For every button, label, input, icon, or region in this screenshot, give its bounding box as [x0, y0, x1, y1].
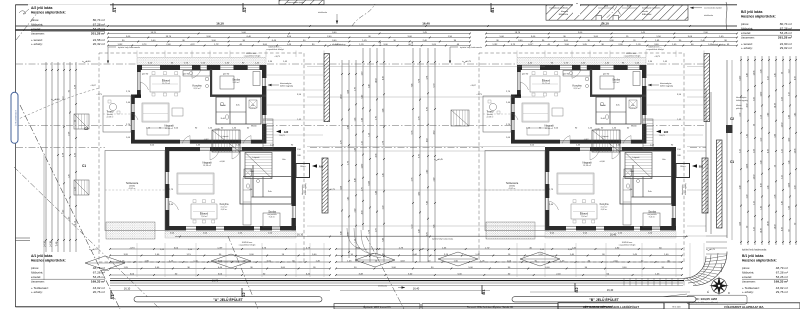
building B gravel strip below tetoterasz	[486, 222, 535, 239]
building B upper unit left exterior wall	[517, 65, 521, 72]
building A entrance porch walls	[296, 164, 310, 178]
svg-text:A/2: A/2	[284, 130, 289, 134]
building B lower unit top wall	[545, 147, 580, 151]
svg-text:Lépcső: Lépcső	[253, 157, 261, 159]
capsule label A JELU EPULET	[134, 297, 322, 302]
svg-text:pince:: pince:	[31, 266, 39, 270]
building A unit entry marker lower	[312, 164, 317, 168]
svg-text:2,08: 2,08	[760, 70, 762, 74]
svg-text:Kéz: Kéz	[662, 159, 665, 161]
svg-text:14,30: 14,30	[774, 224, 776, 229]
svg-text:30: 30	[794, 223, 796, 225]
svg-text:építési hely határvonala: építési hely határvonala	[742, 249, 767, 252]
svg-text:emelet: emelet	[642, 10, 648, 13]
svg-text:14,30: 14,30	[781, 123, 783, 128]
svg-text:Tervező: Offix Architect Épít: Tervező: Offix Architect Építész Stúdió …	[467, 306, 513, 309]
svg-text:14,38: 14,38	[753, 71, 755, 76]
svg-text:22,58 m²: 22,58 m²	[486, 115, 493, 118]
svg-text:2,26 m²: 2,26 m²	[250, 107, 256, 110]
svg-text:6,40: 6,40	[354, 178, 356, 182]
title bar boxes bottom	[334, 304, 420, 309]
svg-text:"A" JELŰ ÉPÜLET: "A" JELŰ ÉPÜLET	[213, 297, 244, 302]
svg-text:2,40: 2,40	[788, 115, 790, 119]
svg-text:2,08: 2,08	[774, 195, 776, 199]
right vertical dimension chains	[740, 56, 742, 245]
svg-text:Lépcső: Lépcső	[633, 157, 641, 159]
svg-text:10,71 m²: 10,71 m²	[542, 82, 550, 85]
svg-text:3,00: 3,00	[382, 206, 384, 210]
svg-text:kültéri egység: kültéri egység	[660, 85, 674, 88]
svg-text:20,76 m²: 20,76 m²	[93, 290, 105, 294]
svg-text:6,02 m²: 6,02 m²	[601, 208, 608, 211]
building A upper chairs	[152, 72, 155, 75]
svg-text:Szoba: Szoba	[268, 210, 276, 214]
building B facade gravel stipple band top	[517, 58, 646, 65]
building A lower szoba bed	[263, 213, 280, 227]
svg-text:16,10: 16,10	[601, 22, 609, 26]
svg-text:+1,73: +1,73	[96, 94, 102, 96]
building A interior wall konyha-szoba	[210, 69, 212, 96]
building A upper dining table	[150, 76, 180, 92]
svg-text:29,76 m²: 29,76 m²	[776, 290, 788, 294]
svg-text:9,45 m²: 9,45 m²	[649, 215, 656, 218]
svg-text:homlokzati szellőzés: homlokzati szellőzés	[550, 7, 568, 10]
building A lower unit right exterior wall	[292, 147, 296, 206]
svg-text:kültéri egység: kültéri egység	[684, 183, 687, 195]
svg-text:Zal.: Zal.	[629, 189, 633, 191]
svg-text:építési hely határvonala: építési hely határvonala	[460, 46, 483, 49]
svg-text:4,30: 4,30	[739, 222, 741, 226]
svg-text:29,02 m²: 29,02 m²	[780, 46, 792, 50]
svg-text:1,45: 1,45	[382, 173, 384, 177]
svg-text:2,10: 2,10	[781, 149, 783, 153]
svg-text:3,78: 3,78	[426, 76, 428, 80]
svg-text:2,40: 2,40	[361, 118, 363, 122]
svg-text:1,45: 1,45	[354, 118, 356, 122]
svg-text:43,02 m²: 43,02 m²	[128, 187, 135, 190]
setback dash-dot line y64	[16, 63, 137, 65]
svg-text:16,70: 16,70	[212, 279, 219, 283]
svg-text:2,08: 2,08	[781, 97, 783, 101]
svg-text:3,48: 3,48	[340, 231, 342, 235]
svg-text:Konyha: Konyha	[192, 84, 202, 88]
svg-text:ültetett sövény: ültetett sövény	[712, 43, 726, 46]
svg-text:2,40: 2,40	[368, 84, 370, 88]
svg-text:pml 90: pml 90	[183, 74, 190, 76]
building A upper flight stairs	[212, 130, 240, 152]
svg-text:Tetőterasza: Tetőterasza	[506, 182, 519, 185]
svg-text:Fürdő: Fürdő	[600, 104, 606, 107]
svg-text:Tetőterasza: Tetőterasza	[126, 182, 139, 185]
svg-text:4,60: 4,60	[418, 192, 420, 196]
svg-text:Előtér: Előtér	[681, 165, 686, 168]
svg-text:80,74 m²: 80,74 m²	[93, 18, 105, 22]
middle vertical dimension chains	[341, 60, 343, 262]
building A upper unit top exterior wall	[137, 65, 142, 70]
svg-text:43,02 m²: 43,02 m²	[508, 187, 515, 190]
svg-text:Zih.: Zih.	[251, 105, 255, 107]
svg-text:ültetett: ültetett	[736, 104, 742, 107]
building B bath fixtures	[600, 102, 603, 105]
svg-text:7,94 m²: 7,94 m²	[581, 215, 588, 218]
building A nappali left exterior wall	[131, 95, 135, 105]
svg-text:Szoba: Szoba	[232, 78, 240, 82]
svg-text:pince:: pince:	[742, 266, 750, 270]
building A upper szoba bed	[220, 76, 234, 89]
svg-text:1,39°: 1,39°	[217, 247, 222, 249]
top overall dimension line 16.10 / 16.40	[16, 25, 737, 27]
svg-text:8,78: 8,78	[426, 232, 428, 236]
bottom big diamond terminators	[85, 256, 125, 270]
svg-text:hőszivattyús: hőszivattyús	[301, 185, 304, 195]
svg-text:14,38: 14,38	[774, 103, 776, 108]
building A lower nappali sofa	[177, 173, 214, 194]
building A unit entry marker upper	[276, 130, 281, 134]
building A upper nappali sofa	[142, 103, 169, 122]
building B bath cluster walls lower	[620, 151, 672, 204]
svg-text:telekhatár: telekhatár	[100, 269, 109, 272]
svg-text:4,38: 4,38	[340, 186, 342, 190]
svg-text:18,98 m²: 18,98 m²	[583, 164, 591, 167]
svg-text:16,10: 16,10	[297, 234, 304, 237]
svg-text:30: 30	[774, 165, 776, 167]
svg-text:5,78: 5,78	[375, 116, 377, 120]
svg-text:kültéri egység: kültéri egység	[280, 85, 294, 88]
svg-text:csapadékvíz lefolyó: csapadékvíz lefolyó	[244, 56, 261, 58]
svg-text:18,70: 18,70	[166, 36, 172, 38]
svg-text:ültetett sövény: ültetett sövény	[332, 43, 346, 46]
svg-text:ÚJ KÖZTERÜLET: ÚJ KÖZTERÜLET	[15, 109, 18, 126]
building A bath fixtures	[220, 102, 223, 105]
building A lower flight stairs	[245, 153, 272, 179]
building B lower nappali sofa	[557, 173, 594, 194]
svg-text:1,39°: 1,39°	[492, 44, 497, 46]
dashed leader top-left	[16, 88, 100, 120]
svg-text:6,02 m²: 6,02 m²	[221, 208, 228, 211]
svg-text:30: 30	[746, 226, 748, 228]
svg-text:1,72°: 1,72°	[485, 247, 490, 249]
svg-text:csapadékvíz lefolyó: csapadékvíz lefolyó	[266, 49, 284, 51]
svg-text:+1,73: +1,73	[616, 149, 622, 151]
building B upper nappali coffee table	[552, 108, 563, 116]
svg-text:3,00: 3,00	[361, 72, 363, 76]
svg-text:1,45: 1,45	[746, 134, 748, 138]
svg-text:13,73: 13,73	[659, 135, 665, 137]
street corner curve arcs	[684, 256, 706, 278]
svg-text:+1,73: +1,73	[476, 94, 482, 96]
building B hatched pier upper right	[704, 54, 710, 122]
svg-text:4,38: 4,38	[347, 90, 349, 94]
svg-text:emelet:: emelet:	[741, 31, 751, 35]
svg-text:3,00: 3,00	[753, 97, 755, 101]
svg-text:22,58 m²: 22,58 m²	[106, 115, 113, 118]
building B upper kitchen counter	[563, 71, 590, 77]
building B lower flight stairs	[625, 153, 652, 179]
svg-text:telekhatár: telekhatár	[378, 285, 387, 288]
svg-text:1,45: 1,45	[347, 197, 349, 201]
svg-text:K.áll.: K.áll.	[601, 118, 606, 120]
svg-text:+3,47: +3,47	[90, 85, 96, 87]
svg-text:6,70: 6,70	[411, 225, 413, 229]
svg-text:1,45: 1,45	[774, 73, 776, 77]
building A upper nappali coffee table	[172, 108, 183, 116]
svg-text:csapadékvíz lefolyó: csapadékvíz lefolyó	[624, 56, 641, 58]
svg-text:pml 90: pml 90	[223, 74, 230, 76]
svg-text:B/2 jelű lakás: B/2 jelű lakás	[741, 10, 763, 14]
svg-text:14,38: 14,38	[49, 240, 52, 247]
svg-text:Zuh.: Zuh.	[268, 191, 273, 193]
building B unit entry marker lower	[692, 164, 697, 168]
building B szoba partition wall	[590, 95, 646, 97]
svg-text:+0,00: +0,00	[219, 161, 225, 163]
svg-text:3,48: 3,48	[347, 126, 349, 130]
building B lower szoba bed	[643, 213, 660, 227]
svg-text:10,71 m²: 10,71 m²	[162, 82, 170, 85]
svg-text:összesen:: összesen:	[31, 280, 45, 284]
svg-text:-0,02: -0,02	[204, 139, 210, 141]
top dimension chain rows left	[108, 33, 470, 35]
building A entry steps upper unit east	[263, 119, 273, 149]
svg-text:+ erkély:: + erkély:	[31, 42, 43, 46]
svg-text:14,60: 14,60	[340, 94, 342, 99]
svg-text:48,79 m²: 48,79 m²	[776, 266, 788, 270]
telekhatar diagonal bottom middle	[228, 236, 258, 309]
svg-text:M 1:100: M 1:100	[673, 307, 682, 309]
svg-text:pml 90: pml 90	[142, 74, 149, 76]
svg-text:Hasznos alapterületek:: Hasznos alapterületek:	[31, 11, 66, 15]
svg-text:szomszédos épület: szomszédos épület	[704, 7, 722, 10]
svg-text:14,60: 14,60	[375, 78, 377, 83]
svg-text:16,40: 16,40	[422, 22, 430, 26]
svg-text:4,60: 4,60	[426, 138, 428, 142]
svg-text:kültéri egység: kültéri egység	[736, 99, 748, 102]
svg-text:K.áll.: K.áll.	[221, 118, 226, 120]
svg-text:2,40: 2,40	[433, 178, 435, 182]
svg-text:3,00: 3,00	[794, 186, 796, 190]
building B lower dining table	[571, 204, 597, 219]
svg-text:14,60: 14,60	[361, 164, 363, 169]
chain bend curves to bottom rows	[347, 228, 367, 250]
svg-text:Hasznos alapterületek:: Hasznos alapterületek:	[741, 15, 776, 19]
building B hatched pier lower right	[702, 158, 708, 213]
svg-text:22,38 m²: 22,38 m²	[545, 127, 553, 130]
svg-text:7,48: 7,48	[55, 241, 58, 246]
svg-text:6,70: 6,70	[433, 84, 435, 88]
svg-text:7,48: 7,48	[433, 225, 435, 229]
svg-text:53,26 m²: 53,26 m²	[780, 31, 792, 35]
svg-text:6,40: 6,40	[361, 95, 363, 99]
svg-text:hőszivattyús: hőszivattyús	[280, 82, 291, 85]
svg-text:14,30: 14,30	[753, 175, 755, 180]
svg-text:B/Bfal/50d: B/Bfal/50d	[559, 14, 568, 16]
building A facade gravel stipple band top	[137, 58, 266, 65]
svg-text:6,40: 6,40	[382, 238, 384, 242]
svg-text:2,79: 2,79	[347, 161, 349, 165]
building A terasz table	[109, 103, 116, 110]
building B upper chairs	[532, 72, 535, 75]
svg-text:2,40: 2,40	[760, 161, 762, 165]
frame heavy horizontal line y30	[16, 29, 800, 31]
left site stair symbols	[74, 114, 89, 129]
text block A/1 bottom-left	[28, 253, 110, 300]
svg-text:30: 30	[788, 230, 790, 232]
building A lower kitchen counter	[243, 178, 251, 225]
svg-text:7,48: 7,48	[411, 84, 413, 88]
svg-text:8,92 m²: 8,92 m²	[574, 87, 581, 90]
svg-text:3,78: 3,78	[418, 117, 420, 121]
svg-text:hőszivattyús: hőszivattyús	[681, 185, 684, 195]
svg-text:30: 30	[781, 72, 783, 74]
bottom road lines	[110, 277, 688, 279]
svg-text:szomszédos épület: szomszédos épület	[287, 1, 305, 4]
svg-text:1,72°: 1,72°	[214, 44, 219, 46]
building B door swing arcs	[572, 69, 581, 78]
svg-text:201,28 m²: 201,28 m²	[91, 32, 105, 36]
level annotation pointer	[630, 294, 687, 301]
building A tetoterasz lower	[105, 151, 165, 231]
svg-text:5,78: 5,78	[340, 140, 342, 144]
svg-text:telekhatár: telekhatár	[318, 11, 327, 14]
svg-text:2,08: 2,08	[753, 149, 755, 153]
svg-text:hőszivattyús: hőszivattyús	[660, 82, 671, 85]
svg-text:+3,47: +3,47	[470, 85, 476, 87]
building A szoba partition wall	[210, 95, 266, 97]
svg-text:Kéz: Kéz	[282, 159, 285, 161]
building B upper unit top exterior wall	[517, 65, 522, 70]
telekhatar dash-dot diagonal left	[20, 105, 120, 309]
svg-text:+ erkély:: + erkély:	[31, 290, 43, 294]
svg-text:emelet:: emelet:	[742, 275, 752, 279]
svg-text:Fürdő: Fürdő	[220, 104, 226, 107]
svg-text:22,38 m²: 22,38 m²	[165, 127, 173, 130]
svg-text:felmenő: felmenő	[561, 11, 569, 13]
telekhatar wavy vertical right	[726, 2, 727, 30]
building A upper unit right exterior wall	[262, 65, 266, 78]
svg-text:+3,73: +3,73	[274, 56, 280, 58]
svg-text:A/1 jelű lakás: A/1 jelű lakás	[31, 254, 53, 258]
svg-text:8,78: 8,78	[411, 131, 413, 135]
building A lower chairs	[193, 200, 196, 203]
svg-text:3,00: 3,00	[746, 195, 748, 199]
svg-text:Kád: Kád	[630, 171, 634, 173]
svg-text:18,98 m²: 18,98 m²	[203, 164, 211, 167]
svg-text:3,10: 3,10	[767, 76, 769, 80]
witness drop lines from top rows to building	[136, 51, 138, 58]
svg-text:Zih.: Zih.	[631, 105, 635, 107]
building A gravel stipple band bottom	[165, 232, 296, 239]
building A lower unit bottom exterior wall	[165, 226, 186, 230]
svg-text:2,40: 2,40	[767, 113, 769, 117]
svg-text:2,40: 2,40	[746, 73, 748, 77]
svg-text:16,40: 16,40	[607, 288, 614, 292]
svg-text:2,26 m²: 2,26 m²	[630, 107, 636, 110]
building A lower wc fixtures	[247, 184, 250, 188]
building A upper unit left exterior wall	[137, 65, 141, 72]
level annotation box 134.05	[687, 295, 747, 304]
svg-text:2,79: 2,79	[382, 141, 384, 145]
svg-text:16,40: 16,40	[413, 287, 420, 291]
svg-text:Nappali: Nappali	[202, 161, 212, 165]
svg-text:7,94 m²: 7,94 m²	[201, 215, 208, 218]
svg-text:+ erkély:: + erkély:	[741, 46, 753, 50]
svg-text:6,37°: 6,37°	[528, 44, 533, 46]
building B roof overhang dashed outline	[479, 53, 684, 262]
svg-text:3,48: 3,48	[382, 109, 384, 113]
svg-text:1,45: 1,45	[760, 206, 762, 210]
building A lower dining table	[191, 204, 217, 219]
neighbour building hatched strip top right	[546, 5, 688, 20]
svg-text:14,38: 14,38	[794, 149, 796, 154]
telekhatar diagonal bottom middle-right	[366, 236, 404, 309]
svg-text:+ erkély:: + erkély:	[742, 290, 754, 294]
witness lines across middle gap	[307, 66, 545, 68]
svg-text:1,39°: 1,39°	[117, 44, 122, 46]
svg-text:1,45: 1,45	[788, 161, 790, 165]
svg-text:A/2 jelű lakás: A/2 jelű lakás	[31, 6, 53, 10]
svg-text:csapadékvíz lefolyó: csapadékvíz lefolyó	[239, 244, 256, 246]
street name blue capsule	[11, 92, 18, 143]
svg-text:4,30: 4,30	[794, 76, 796, 80]
svg-text:14,38: 14,38	[788, 183, 790, 188]
svg-text:összesen:: összesen:	[742, 280, 756, 284]
svg-text:+3,73: +3,73	[654, 56, 660, 58]
telekhatar dash-dot diagonal top-left corner	[16, 12, 38, 40]
svg-text:pince:: pince:	[31, 18, 39, 22]
building B lower unit right exterior wall	[672, 147, 676, 206]
svg-text:B/Bfal/50d: B/Bfal/50d	[642, 14, 651, 16]
svg-text:4,38: 4,38	[361, 211, 363, 215]
building B terasz upper	[483, 96, 511, 132]
svg-text:16,10: 16,10	[216, 22, 224, 26]
frame left border line	[15, 5, 17, 308]
svg-text:2,79: 2,79	[354, 87, 356, 91]
svg-text:Előtér: Előtér	[631, 125, 637, 128]
capsule label B JELU EPULET	[512, 297, 696, 302]
svg-text:Konyha: Konyha	[600, 202, 609, 206]
svg-text:Hasznos alapterületek:: Hasznos alapterületek:	[31, 259, 66, 263]
svg-text:Konyha: Konyha	[572, 84, 582, 88]
svg-text:2,10: 2,10	[739, 113, 741, 117]
svg-text:összesen:: összesen:	[31, 32, 45, 36]
svg-text:építési hely határvonala: építési hely határvonala	[432, 238, 454, 241]
svg-text:2,79: 2,79	[375, 228, 377, 232]
building B lower unit left exterior wall	[545, 147, 549, 172]
svg-text:1,20: 1,20	[368, 133, 370, 137]
svg-text:kültéri egység: kültéri egység	[304, 183, 307, 195]
svg-text:FÖLDSZINT ALAPRAJZ IZA: FÖLDSZINT ALAPRAJZ IZA	[724, 304, 764, 309]
svg-text:9,45 m²: 9,45 m²	[613, 81, 620, 84]
street lines to top-right from curve	[731, 60, 733, 240]
street ladder ticks above curve	[706, 235, 727, 237]
svg-text:3,10: 3,10	[739, 149, 741, 153]
building A upper unit bottom wall	[131, 140, 180, 144]
signature scribble top-left	[19, 9, 29, 14]
bottom dimension chain rows middle-right cluster	[336, 248, 682, 250]
svg-text:Zuh.: Zuh.	[236, 105, 241, 107]
svg-text:Kád: Kád	[250, 171, 254, 173]
svg-text:53,26 m²: 53,26 m²	[93, 275, 105, 279]
svg-text:homlokzati szellőzés: homlokzati szellőzés	[642, 7, 660, 10]
svg-text:pince:: pince:	[741, 22, 749, 26]
svg-text:7,48: 7,48	[426, 201, 428, 205]
svg-text:pml 90: pml 90	[522, 74, 529, 76]
svg-text:csapadékvíz lefolyó: csapadékvíz lefolyó	[646, 49, 664, 51]
frame top line	[16, 4, 738, 6]
text block A/2 top-left	[28, 5, 110, 52]
svg-text:C1: C1	[82, 164, 86, 168]
svg-text:-3,73: -3,73	[130, 247, 136, 249]
svg-text:-0,02: -0,02	[584, 139, 590, 141]
